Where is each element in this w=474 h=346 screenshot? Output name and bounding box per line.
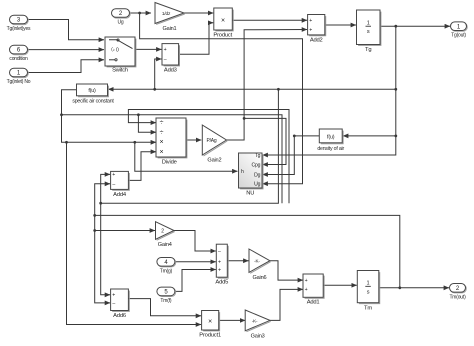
svg-text:Tg(inlet) No: Tg(inlet) No [7,79,31,85]
svg-text:–: – [164,57,167,63]
svg-text:specific air constant: specific air constant [72,99,114,105]
svg-text:–: – [218,249,221,255]
svg-text:Tg: Tg [365,47,371,53]
svg-text:Tm(f): Tm(f) [160,298,171,304]
svg-text:×: × [221,18,225,25]
svg-text:×: × [208,318,212,325]
svg-text:1/dz: 1/dz [162,11,171,17]
svg-text:–: – [112,182,115,188]
svg-text:density of air: density of air [317,146,344,152]
svg-text:Ug: Ug [254,182,260,188]
svg-text:÷: ÷ [160,120,164,127]
svg-text:Tg: Tg [255,153,261,159]
svg-text:P/Ag: P/Ag [206,138,216,144]
svg-text:Add2: Add2 [310,37,323,43]
svg-text:f(u): f(u) [327,135,335,141]
svg-text:Add6: Add6 [113,313,126,319]
svg-text:1: 1 [367,21,370,27]
svg-text:+: + [309,18,312,24]
svg-text:+: + [112,293,115,299]
svg-text:Gain6: Gain6 [252,275,266,281]
svg-text:+: + [164,47,167,53]
svg-text:Dg: Dg [254,173,260,179]
svg-text:+: + [218,260,221,266]
svg-text:Product1: Product1 [199,333,221,339]
svg-text:Add3: Add3 [164,67,177,73]
svg-text:Gain2: Gain2 [207,158,221,164]
svg-text:Add5: Add5 [215,280,228,286]
svg-text:Add1: Add1 [307,300,320,306]
svg-text:Gain3: Gain3 [251,333,265,339]
svg-text:+: + [309,27,312,33]
svg-text:Tg(out): Tg(out) [451,33,466,39]
svg-text:Add4: Add4 [113,192,127,198]
svg-text:Product: Product [213,33,232,39]
svg-text:-K-: -K- [252,318,258,323]
svg-text:Divide: Divide [162,160,177,166]
svg-text:Tm(g): Tm(g) [160,268,173,274]
svg-text:-K-: -K- [254,259,260,264]
svg-text:×: × [159,149,163,156]
svg-text:+: + [218,267,221,273]
svg-text:h: h [241,169,244,175]
svg-text:Gain1: Gain1 [163,26,177,32]
svg-text:+: + [305,287,308,293]
svg-text:÷: ÷ [160,129,164,136]
svg-text:condition: condition [9,56,28,62]
svg-text:Switch: Switch [112,68,128,74]
svg-text:+: + [305,278,308,284]
svg-text:s: s [367,29,370,35]
svg-text:2: 2 [161,228,164,234]
svg-text:Tg(inlet)yes: Tg(inlet)yes [7,26,31,32]
svg-text:f(u): f(u) [88,88,96,94]
svg-text:Ug: Ug [118,20,124,26]
svg-text:+: + [112,172,115,178]
svg-text:1: 1 [367,281,370,287]
svg-text:s: s [367,289,370,295]
svg-text:〈› 0: 〈› 0 [108,48,119,54]
svg-text:–: – [112,301,115,307]
svg-text:×: × [159,139,163,146]
svg-text:Tm: Tm [364,306,372,312]
svg-text:Tm(out): Tm(out) [449,294,466,300]
svg-text:NU: NU [246,191,254,197]
svg-text:Cpg: Cpg [252,163,261,169]
svg-text:Gain4: Gain4 [158,242,172,248]
